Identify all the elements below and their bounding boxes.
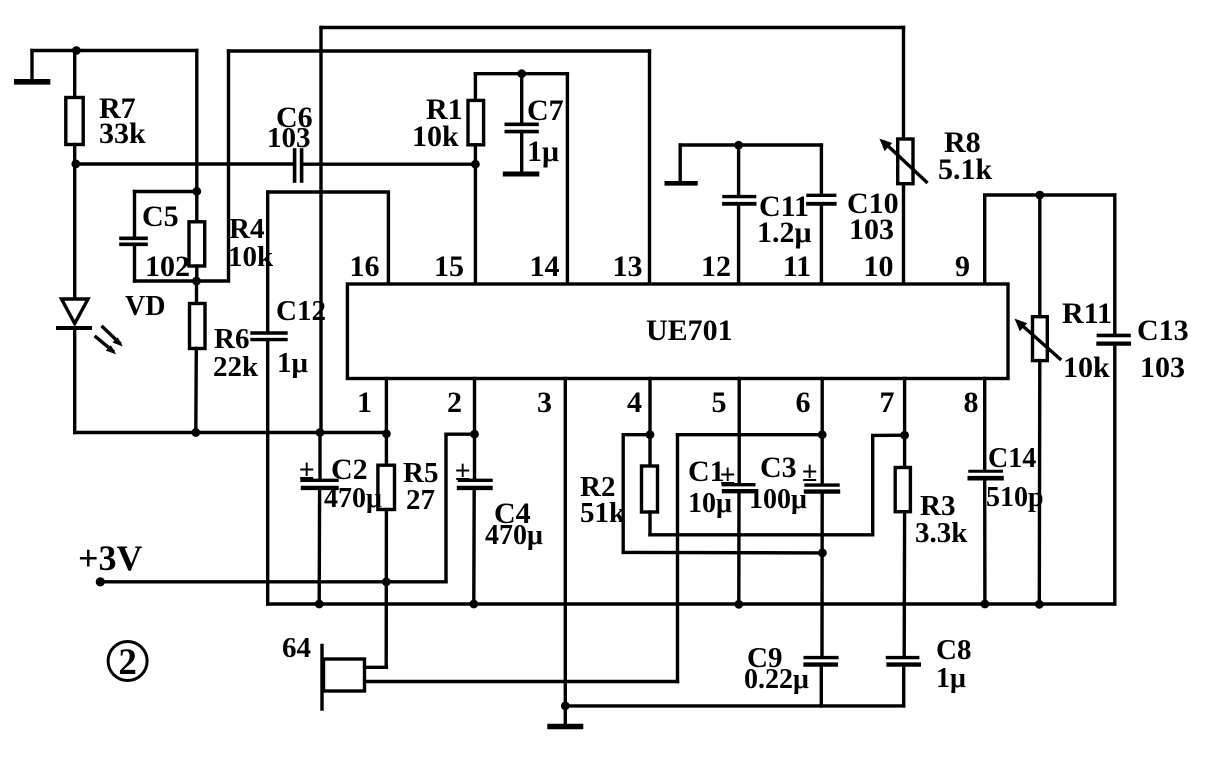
svg-text:103: 103 (267, 122, 311, 154)
LED arrow 2 (96, 337, 113, 351)
speaker BL (64 ohm) (320, 646, 323, 710)
wire pin 14 vertical (566, 74, 569, 284)
wire R1 C7 top link to pin 14 (475, 72, 567, 75)
wire pin 2 vertical (473, 379, 476, 435)
capacitor C12 (266, 192, 269, 332)
svg-text:C5: C5 (142, 200, 179, 233)
svg-text:VD: VD (125, 291, 165, 322)
svg-text:10: 10 (864, 250, 894, 283)
svg-text:+3V: +3V (78, 538, 143, 578)
svg-text:1μ: 1μ (277, 347, 309, 379)
svg-text:510p: 510p (986, 482, 1044, 513)
svg-text:5: 5 (712, 386, 727, 419)
svg-text:470μ: 470μ (485, 520, 543, 551)
svg-text:22k: 22k (213, 351, 259, 383)
pin numbers top row (350, 250, 971, 283)
svg-text:16: 16 (350, 250, 380, 283)
wire pin 6 vertical with capacitor C3 (821, 379, 824, 484)
svg-text:R11: R11 (1062, 297, 1112, 330)
wire +3V feed (100, 580, 446, 583)
resistor R2 (648, 435, 651, 466)
svg-text:27: 27 (406, 484, 435, 516)
LED arrow 1 (103, 327, 120, 343)
wire bottom rail (268, 602, 1115, 605)
svg-text:1μ: 1μ (527, 135, 559, 168)
svg-text:14: 14 (530, 250, 560, 283)
ground C7 (505, 172, 537, 177)
capacitor C2 (318, 433, 321, 479)
wire pin 6 link over to speaker line (678, 433, 823, 436)
capacitor C7 (520, 74, 523, 123)
svg-text:3.3k: 3.3k (915, 517, 968, 549)
svg-text:10μ: 10μ (688, 488, 732, 519)
wire C6 line from R7 bottom to R1 bottom (76, 162, 293, 165)
wire pin 8 with capacitor C14 (983, 379, 986, 470)
svg-text:103: 103 (1140, 351, 1185, 384)
svg-text:10k: 10k (1063, 351, 1110, 384)
wire pin 4 vertical (648, 379, 651, 435)
wire R2 upper link to pin 4 (623, 433, 650, 436)
svg-text:C14: C14 (988, 443, 1036, 474)
wire pin 3 to ground (564, 379, 567, 725)
svg-text:9: 9 (955, 250, 970, 283)
capacitor C13 (1113, 195, 1116, 334)
wire bottom-left node line (75, 431, 387, 434)
pin numbers bottom row (357, 386, 979, 419)
svg-text:470μ: 470μ (324, 483, 382, 514)
svg-text:C7: C7 (527, 94, 564, 127)
wire top-left ground line (32, 49, 197, 52)
svg-text:11: 11 (783, 250, 811, 283)
svg-text:102: 102 (145, 250, 190, 283)
svg-text:10k: 10k (412, 120, 459, 153)
op-amp U1 IC UE701 body (347, 284, 1008, 379)
svg-text:±: ± (720, 460, 735, 491)
ground main (550, 724, 581, 729)
svg-text:4: 4 (627, 386, 642, 419)
svg-text:15: 15 (434, 250, 464, 283)
wire bottom ground link line (565, 704, 903, 707)
capacitor C9 (805, 656, 837, 659)
capacitor C6 (293, 150, 297, 181)
svg-text:3: 3 (537, 386, 552, 419)
svg-text:13: 13 (613, 250, 643, 283)
capacitor C10 (820, 145, 823, 194)
ground C11 (667, 181, 696, 186)
svg-text:UE701: UE701 (646, 314, 733, 347)
svg-text:2: 2 (118, 642, 137, 683)
svg-text:C13: C13 (1137, 314, 1189, 347)
svg-text:2: 2 (447, 386, 462, 419)
svg-text:51k: 51k (580, 497, 626, 529)
capacitor C4 (473, 434, 476, 478)
resistor R8 (variable) (902, 28, 905, 140)
svg-text:C8: C8 (936, 634, 971, 666)
resistor R6 (195, 281, 198, 304)
svg-text:±: ± (802, 457, 817, 488)
svg-text:C12: C12 (276, 295, 326, 327)
svg-text:33k: 33k (99, 117, 146, 150)
svg-text:C3: C3 (760, 451, 797, 484)
svg-text:0.22μ: 0.22μ (744, 664, 809, 695)
svg-text:1: 1 (357, 386, 372, 419)
resistor R7 (73, 51, 76, 98)
svg-text:8: 8 (964, 386, 979, 419)
wire pin 1 vertical (385, 379, 388, 435)
wire left loop of pin 4 node (623, 435, 822, 553)
wire pin 16 with C12 top (268, 192, 389, 284)
wire pin 7 with resistor R3 (903, 379, 906, 468)
ground top-left (30, 51, 33, 80)
wire top rail from node above C2 to R8 (321, 26, 904, 29)
svg-text:±: ± (299, 455, 314, 486)
resistor R11 (variable) (1038, 195, 1041, 317)
wire second top rail to pin 13 (229, 49, 650, 52)
svg-text:1μ: 1μ (936, 663, 966, 694)
capacitor C8 (888, 656, 918, 659)
wire vertical from top rail down to bottom-left node (319, 28, 322, 433)
resistor R4 (195, 191, 198, 222)
figure number circled 2 (108, 642, 147, 681)
wire speaker bottom lead (365, 680, 678, 683)
svg-text:6: 6 (796, 386, 811, 419)
svg-text:7: 7 (880, 386, 895, 419)
svg-text:1.2μ: 1.2μ (757, 216, 812, 249)
svg-text:12: 12 (701, 250, 731, 283)
svg-text:10k: 10k (228, 241, 274, 273)
wire vertical to R4 top node (195, 51, 198, 192)
svg-text:103: 103 (849, 213, 894, 246)
wire C11 C10 ground link (680, 143, 821, 146)
svg-text:C2: C2 (331, 453, 368, 486)
resistor R1 (474, 74, 477, 101)
capacitor C5 box (135, 190, 197, 193)
svg-text:±: ± (455, 456, 470, 487)
svg-text:5.1k: 5.1k (938, 153, 993, 186)
svg-text:100μ: 100μ (749, 484, 807, 515)
wire R2 bottom link to pin 7 (650, 435, 905, 535)
svg-text:64: 64 (282, 632, 311, 664)
LED VD (73, 164, 76, 299)
wire pin 13 vertical (648, 51, 651, 284)
capacitor C11 (737, 145, 740, 195)
resistor R5 (385, 434, 388, 465)
wire pin 5 with capacitor C1 (738, 379, 741, 484)
wire vertical from second rail down to R4 bottom node (197, 51, 229, 281)
wire pin 9 up and over to C13 (985, 195, 1115, 284)
